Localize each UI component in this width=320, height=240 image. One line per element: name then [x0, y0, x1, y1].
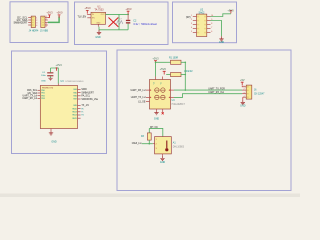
svg-text:GND: GND [41, 80, 46, 82]
svg-text:SWDIO/PA_L5a: SWDIO/PA_L5a [81, 98, 98, 101]
svg-text:GND: GND [219, 41, 225, 44]
svg-text:Pb: Pb [81, 108, 83, 110]
svg-text:1: 1 [191, 15, 192, 17]
svg-text:DHL10B03: DHL10B03 [173, 146, 185, 148]
svg-text:UART_TX_Lvl: UART_TX_Lvl [131, 96, 146, 99]
svg-text:1: 1 [156, 139, 157, 141]
svg-text:V5: V5 [161, 82, 163, 84]
svg-text:4: 4 [244, 96, 245, 98]
svg-text:CN6_SCL: CN6_SCL [27, 90, 38, 92]
svg-text:8: 8 [211, 23, 212, 25]
svg-text:SMBALERT: SMBALERT [13, 20, 27, 24]
svg-text:J4 HDR4: J4 HDR4 [29, 29, 39, 32]
svg-text:GND: GND [96, 22, 101, 24]
svg-text:PB1: PB1 [41, 93, 45, 95]
svg-text:GND: GND [95, 36, 101, 39]
svg-text:5: 5 [191, 31, 192, 33]
svg-text:Pc: Pc [81, 112, 83, 114]
svg-text:3.3v ↑ 500mA sheet: 3.3v ↑ 500mA sheet [133, 22, 157, 26]
svg-text:+3V3: +3V3 [46, 11, 53, 15]
svg-text:SMBALERT: SMBALERT [81, 91, 94, 94]
svg-text:PA5: PA5 [73, 91, 76, 94]
svg-text:Chk#_Lvl: Chk#_Lvl [132, 143, 142, 145]
svg-text:PA4: PA4 [73, 88, 76, 91]
svg-text:+5V0: +5V0 [56, 11, 63, 15]
svg-text:TA 7533: TA 7533 [94, 8, 104, 11]
svg-text:3: 3 [191, 23, 192, 25]
svg-text:5A02: 5A02 [199, 11, 205, 14]
svg-text:L5_OE: L5_OE [138, 101, 146, 103]
svg-text:V3: V3 [154, 82, 156, 84]
svg-text:TX_J/4: TX_J/4 [81, 105, 89, 107]
svg-text:STM32G031G8U6: STM32G031G8U6 [65, 81, 84, 83]
svg-text:2: 2 [191, 19, 192, 21]
svg-text:PB2: PB2 [41, 95, 45, 97]
svg-text:+3V3: +3V3 [152, 57, 159, 61]
svg-text:H4GA02BC7: H4GA02BC7 [172, 103, 186, 106]
svg-text:SWD: SWD [81, 89, 87, 91]
svg-text:PB0: PB0 [41, 90, 45, 92]
svg-text:+5V0: +5V0 [160, 67, 167, 71]
svg-text:R1 100R: R1 100R [169, 57, 178, 59]
svg-text:4: 4 [191, 27, 192, 29]
svg-text:+3V3: +3V3 [125, 7, 132, 11]
svg-text:Pd: Pd [81, 115, 83, 117]
svg-text:PA9: PA9 [73, 104, 76, 107]
svg-text:UART_TX_FOR: UART_TX_FOR [208, 87, 225, 90]
svg-text:2: 2 [46, 18, 47, 20]
svg-text:+5V: +5V [240, 78, 245, 82]
svg-text:+3V3: +3V3 [227, 9, 234, 13]
svg-text:3: 3 [244, 92, 245, 94]
svg-text:PA14: PA14 [72, 114, 76, 117]
svg-text:PA7: PA7 [73, 98, 76, 101]
svg-text:PB3: PB3 [41, 98, 45, 100]
svg-text:PA_SCL: PA_SCL [81, 95, 90, 98]
svg-text:J5 VBB: J5 VBB [40, 29, 48, 32]
svg-text:+3V3: +3V3 [56, 63, 63, 67]
svg-text:3: 3 [156, 148, 157, 150]
svg-text:PA13: PA13 [72, 111, 76, 114]
svg-text:2: 2 [244, 89, 245, 91]
svg-text:UART_RX_Lvl: UART_RX_Lvl [130, 89, 145, 92]
svg-text:2: 2 [156, 144, 157, 146]
svg-text:UART_RX_Out: UART_RX_Out [208, 91, 224, 94]
svg-text:+5V0: +5V0 [84, 6, 91, 10]
svg-text:(SP): (SP) [186, 17, 191, 19]
svg-text:7: 7 [211, 27, 212, 29]
svg-text:GND: GND [51, 141, 57, 144]
svg-text:PA15: PA15 [72, 117, 76, 120]
svg-text:GND: GND [154, 118, 160, 121]
svg-text:100n: 100n [41, 75, 47, 77]
svg-text:UART_RX_Lvl: UART_RX_Lvl [22, 97, 37, 100]
svg-text:PA6: PA6 [73, 95, 76, 98]
svg-text:CN 12547: CN 12547 [254, 93, 265, 95]
svg-text:4: 4 [46, 26, 47, 28]
svg-text:GND: GND [240, 105, 246, 108]
svg-text:I2C_SDA: I2C_SDA [28, 92, 38, 95]
svg-text:PA10: PA10 [72, 107, 76, 110]
svg-text:4: 4 [36, 25, 37, 27]
svg-text:6: 6 [211, 31, 212, 33]
svg-text:TLV_EN: TLV_EN [77, 17, 86, 19]
svg-text:GND: GND [160, 161, 166, 164]
svg-text:1: 1 [244, 85, 245, 87]
svg-text:UART_TX_Lvl: UART_TX_Lvl [23, 95, 38, 98]
